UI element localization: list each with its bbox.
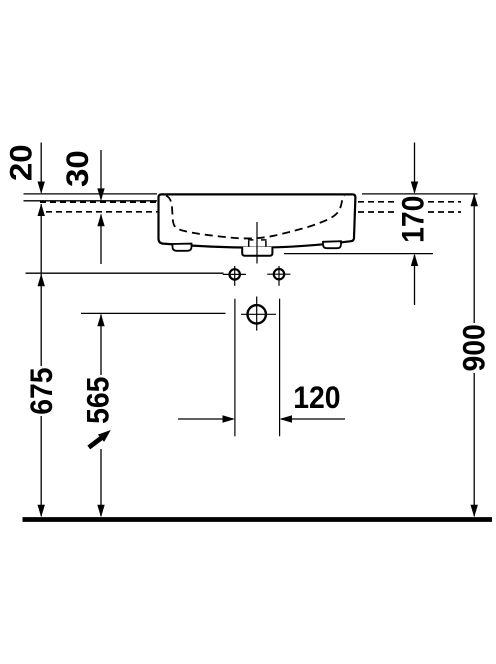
bowl interior hidden outline (dashed) [166, 196, 344, 239]
dimension 900: vertical line [473, 195, 475, 324]
dimension 900: down arrow at floor [471, 505, 478, 517]
drain hidden edges (short dashes above drain box) [248, 239, 254, 241]
wire: basin bottom reference line (170 bottom) [284, 253, 433, 255]
dimension 565: vertical line [100, 315, 102, 376]
dimension 120: right leader with left arrow [281, 418, 345, 420]
label 170 white backing [397, 195, 428, 245]
pointer arrow (north-east) near 565 [89, 438, 102, 448]
wire: faucet-hole reference line (675 top) [26, 272, 224, 274]
svg-text:120: 120 [293, 381, 340, 416]
wire: right hidden line 1 (dashed) [358, 201, 461, 203]
svg-text:20: 20 [3, 144, 38, 181]
svg-text:565: 565 [81, 377, 116, 424]
dimension 170: upper leader with down arrow [414, 143, 416, 193]
drain pipe edges [248, 241, 250, 247]
svg-text:170: 170 [396, 196, 431, 243]
dimension 20: up arrow at lower edge [38, 204, 45, 216]
wire: right hidden line 2 (dashed) [358, 211, 461, 213]
wire: left rim reference line (solid, top) [24, 193, 158, 195]
dimension 170: lower leader with up arrow [414, 255, 416, 305]
faucet hole left (circle) [230, 269, 240, 279]
basin right foot [323, 241, 341, 248]
basin outline [159, 194, 356, 247]
svg-text:675: 675 [25, 367, 60, 414]
wire: left front-edge reference line (solid, lower) [24, 200, 158, 202]
dimension 565: down arrow at floor [97, 505, 104, 517]
faucet hole right crosshair [278, 266, 280, 286]
floor line (thick) [23, 517, 493, 522]
extension line for 120 (right) [279, 299, 281, 437]
wire: left hidden line 1 (dashed) [40, 201, 164, 203]
dimension 20/675: shared vertical line [40, 204, 42, 366]
dimension 30: upper leader with down arrow [100, 150, 102, 200]
svg-text:30: 30 [60, 150, 95, 187]
basin left foot [173, 244, 192, 251]
dimension 20: upper leader with down arrow [40, 143, 42, 193]
wire: left hidden line 2 (dashed) [46, 211, 161, 213]
dimension 120: left leader with right arrow [178, 418, 233, 420]
dimension 565: up arrow at mixer line [97, 314, 104, 326]
dimension 30: up arrow leader below [100, 215, 102, 265]
dimension 900: up arrow at rim line [471, 194, 478, 206]
drain centerline [256, 222, 258, 264]
extension line for 120 (left) [234, 299, 236, 437]
drain fitting box [242, 247, 272, 256]
dimension 675: down arrow at floor [38, 505, 45, 517]
faucet hole right (circle) [274, 269, 284, 279]
wire: mixer-hole reference line (565 top) [81, 312, 226, 314]
dimension 675: up arrow at hole line [38, 274, 45, 286]
mixer hole (large circle) [248, 305, 266, 323]
svg-text:900: 900 [457, 324, 492, 371]
wire: right rim reference line (solid) [362, 193, 478, 195]
faucet hole left crosshair [234, 266, 236, 286]
mixer hole crosshair [256, 297, 258, 331]
